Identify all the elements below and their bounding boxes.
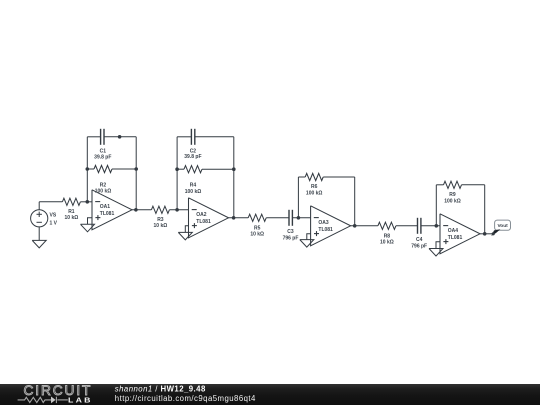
svg-text:OA3: OA3 bbox=[318, 220, 329, 226]
svg-text:LAB: LAB bbox=[68, 396, 93, 404]
svg-text:http://circuitlab.com/c9qa5mgu: http://circuitlab.com/c9qa5mgu86qt4 bbox=[115, 394, 256, 403]
svg-text:10 kΩ: 10 kΩ bbox=[154, 223, 168, 229]
svg-text:VS: VS bbox=[50, 212, 57, 218]
svg-text:C4: C4 bbox=[416, 237, 423, 243]
svg-text:39.8 pF: 39.8 pF bbox=[94, 154, 111, 160]
svg-text:OA4: OA4 bbox=[448, 228, 459, 234]
svg-text:TL081: TL081 bbox=[196, 219, 211, 225]
svg-text:R4: R4 bbox=[190, 183, 197, 189]
svg-text:796 pF: 796 pF bbox=[283, 235, 299, 241]
svg-text:100 kΩ: 100 kΩ bbox=[95, 189, 112, 195]
svg-text:OA2: OA2 bbox=[196, 212, 207, 218]
svg-text:10 kΩ: 10 kΩ bbox=[250, 231, 264, 237]
svg-text:39.8 pF: 39.8 pF bbox=[184, 154, 201, 160]
svg-text:OA1: OA1 bbox=[100, 204, 111, 210]
svg-text:100 kΩ: 100 kΩ bbox=[306, 191, 323, 197]
svg-text:TL081: TL081 bbox=[100, 211, 115, 217]
svg-text:100 kΩ: 100 kΩ bbox=[444, 199, 461, 205]
svg-text:shannon1 / HW12_9.48: shannon1 / HW12_9.48 bbox=[115, 384, 206, 393]
svg-text:R9: R9 bbox=[449, 192, 456, 198]
svg-text:R6: R6 bbox=[311, 184, 318, 190]
svg-text:100 kΩ: 100 kΩ bbox=[185, 189, 202, 195]
svg-text:10 kΩ: 10 kΩ bbox=[65, 215, 79, 221]
svg-text:Vout: Vout bbox=[497, 223, 508, 229]
svg-text:C3: C3 bbox=[287, 229, 294, 235]
svg-text:796 pF: 796 pF bbox=[411, 243, 427, 249]
svg-text:10 kΩ: 10 kΩ bbox=[380, 239, 394, 245]
svg-text:TL081: TL081 bbox=[318, 227, 333, 233]
svg-text:R2: R2 bbox=[100, 182, 107, 188]
svg-text:TL081: TL081 bbox=[448, 235, 463, 241]
svg-text:1 V: 1 V bbox=[50, 220, 58, 226]
